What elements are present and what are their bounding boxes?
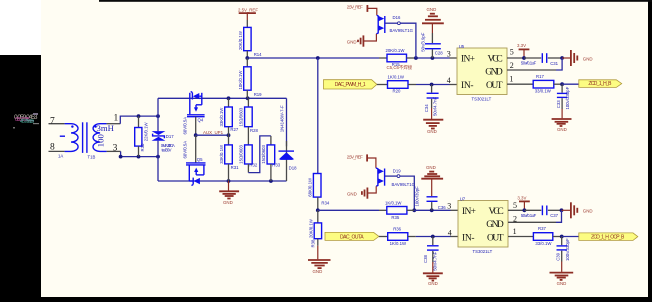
svg-text:33/0.1W: 33/0.1W xyxy=(535,88,552,93)
ground GND D16 xyxy=(347,34,377,47)
svg-text:R30: R30 xyxy=(140,143,145,151)
svg-text:3: 3 xyxy=(447,49,451,58)
resistor R37 xyxy=(533,226,561,246)
capacitor C33 xyxy=(556,84,570,109)
node bottom rail R33 xyxy=(269,179,273,183)
svg-text:U7: U7 xyxy=(460,196,466,201)
wire box top rail xyxy=(158,97,287,99)
svg-text:GND: GND xyxy=(427,129,437,134)
svg-text:3.3V: 3.3V xyxy=(517,195,526,200)
power port 2.5V_REF D16 xyxy=(347,4,377,15)
net label DAC_OUTA xyxy=(325,232,379,240)
ground GND below C38 xyxy=(423,262,443,286)
svg-text:R32: R32 xyxy=(249,162,257,167)
wire D18 drop xyxy=(286,98,288,146)
resistor R34 xyxy=(308,174,330,211)
node C34 tap xyxy=(430,83,434,87)
node divider top xyxy=(245,56,249,60)
svg-text:C31: C31 xyxy=(550,61,558,66)
resistor R28 xyxy=(239,98,259,145)
svg-text:1N4148W-7-F: 1N4148W-7-F xyxy=(279,105,284,132)
svg-text:C34: C34 xyxy=(424,104,429,112)
svg-text:1: 1 xyxy=(513,227,517,236)
node top rail R27 xyxy=(227,96,231,100)
resistor R36 xyxy=(379,227,416,247)
ground GND below C39 xyxy=(550,262,574,286)
svg-text:R37: R37 xyxy=(538,226,546,231)
svg-text:GND: GND xyxy=(583,56,593,61)
capacitor C34 xyxy=(424,85,439,117)
svg-text:R20: R20 xyxy=(393,89,401,94)
svg-text:R17: R17 xyxy=(536,74,544,79)
net label ZCD_1_H_OCP_B xyxy=(579,233,638,241)
net label ZCD_1_H_B xyxy=(579,80,622,88)
svg-text:ZCD_1_H_B: ZCD_1_H_B xyxy=(588,81,612,87)
resistor R38 xyxy=(308,210,321,247)
svg-text:C5,C6不焊接: C5,C6不焊接 xyxy=(387,64,413,71)
TVS diode D17 SMAJ30CA xyxy=(152,116,175,157)
svg-text:1A: 1A xyxy=(58,153,63,158)
svg-text:IN-: IN- xyxy=(462,233,475,243)
node C36 tap xyxy=(430,208,434,212)
transistor Q4 xyxy=(182,91,204,134)
glitch text artifact on black margin xyxy=(13,113,39,129)
resistor R31 xyxy=(219,135,239,181)
svg-text:C36: C36 xyxy=(438,205,446,210)
svg-text:D18: D18 xyxy=(289,165,297,170)
resistor R17 xyxy=(533,74,562,94)
svg-text:GND: GND xyxy=(557,281,567,286)
svg-text:50v/4.7nF: 50v/4.7nF xyxy=(433,97,438,116)
capacitor C36 xyxy=(415,186,447,210)
node top rail R19/R28 xyxy=(246,96,250,100)
svg-text:20K/0.1W: 20K/0.1W xyxy=(238,30,243,50)
svg-text:GND: GND xyxy=(427,7,437,12)
svg-text:2.5V_REF: 2.5V_REF xyxy=(238,7,258,12)
svg-text:3.3V: 3.3V xyxy=(517,43,526,48)
svg-text:100: 100 xyxy=(95,134,105,148)
svg-text:R19: R19 xyxy=(254,92,262,97)
svg-text:C38: C38 xyxy=(423,255,428,263)
svg-text:2.5V_REF: 2.5V_REF xyxy=(347,154,363,159)
svg-text:33/0.1W: 33/0.1W xyxy=(535,241,552,246)
wire Q4 gate to AUX node xyxy=(195,117,197,136)
svg-text:IN+: IN+ xyxy=(461,54,475,64)
wire ref rail top xyxy=(247,57,379,59)
capacitor C39 xyxy=(555,237,570,262)
svg-text:IN+: IN+ xyxy=(462,207,476,217)
svg-text:GND: GND xyxy=(347,192,357,197)
svg-text:1K/0.1W: 1K/0.1W xyxy=(388,75,405,80)
svg-text:33K/0.1W: 33K/0.1W xyxy=(219,144,224,164)
svg-text:68K/0.1W: 68K/0.1W xyxy=(308,177,313,197)
ground GND below C33 xyxy=(552,109,572,132)
svg-text:100v/39pF: 100v/39pF xyxy=(415,186,420,207)
capacitor C28 xyxy=(420,32,443,58)
svg-text:tvs/30V: tvs/30V xyxy=(162,147,172,152)
svg-text:3: 3 xyxy=(113,143,118,153)
svg-text:5: 5 xyxy=(510,48,514,57)
svg-text:7: 7 xyxy=(50,116,55,126)
svg-text:C28: C28 xyxy=(435,51,443,56)
svg-text:3: 3 xyxy=(447,201,451,210)
resistor R32 xyxy=(239,144,258,172)
net label DAC_PWM_H_1 xyxy=(324,80,377,89)
ground GND above C36 xyxy=(421,165,443,196)
svg-text:1K/0.1W: 1K/0.1W xyxy=(385,201,402,206)
svg-text:GND: GND xyxy=(486,220,504,230)
svg-text:ZCD_1_H_OCP_B: ZCD_1_H_OCP_B xyxy=(591,234,625,240)
capacitor C38 xyxy=(423,237,438,271)
svg-text:15Ω/0603: 15Ω/0603 xyxy=(261,144,266,163)
svg-text:Q4: Q4 xyxy=(198,118,204,123)
node C38 tap xyxy=(431,235,435,239)
wire R20 to U5 xyxy=(416,84,450,86)
svg-text:R35: R35 xyxy=(391,215,399,220)
node ref rail branch xyxy=(316,56,320,60)
svg-text:DAC_PWM_H_1: DAC_PWM_H_1 xyxy=(335,82,366,88)
diode D16 BAV99LT1G xyxy=(376,15,413,34)
svg-text:8: 8 xyxy=(50,143,55,153)
svg-text:3mH: 3mH xyxy=(97,123,115,133)
svg-text:2.5V_REF: 2.5V_REF xyxy=(347,4,363,9)
svg-text:10K/0.1W: 10K/0.1W xyxy=(238,70,243,90)
svg-text:33K/0.1W: 33K/0.1W xyxy=(219,107,224,127)
ground GND below R38 xyxy=(308,246,331,274)
node D17 bottom xyxy=(156,155,160,159)
svg-text:VCC: VCC xyxy=(488,54,503,64)
svg-text:22K/0.1W: 22K/0.1W xyxy=(144,121,149,141)
node C28 tap xyxy=(431,56,435,60)
wire to ZCD flag xyxy=(562,83,578,85)
svg-text:C39: C39 xyxy=(555,252,560,260)
capacitor C31 xyxy=(521,53,562,66)
svg-text:R28: R28 xyxy=(250,128,258,133)
wire pin3 to box xyxy=(121,151,158,156)
svg-text:60V/0.5A: 60V/0.5A xyxy=(182,117,187,135)
svg-text:OUT: OUT xyxy=(486,81,503,91)
svg-text:TS3021LT: TS3021LT xyxy=(472,97,492,102)
svg-text:AUX_UP1: AUX_UP1 xyxy=(203,130,224,135)
resistor R27 xyxy=(219,98,239,135)
diode D18 1N4148W-7-F xyxy=(279,105,298,181)
op-amp U5 TS3021LT xyxy=(457,44,507,102)
svg-text:4: 4 xyxy=(448,229,452,238)
svg-text:T1B: T1B xyxy=(88,154,96,159)
svg-text:100v/330pF: 100v/330pF xyxy=(565,86,570,109)
svg-text:100v/330pF: 100v/330pF xyxy=(565,238,570,261)
node 3.3V tap xyxy=(522,56,526,60)
wire R35 to U7 xyxy=(414,209,450,211)
svg-text:2: 2 xyxy=(510,61,514,70)
svg-text:BAV99LT1G: BAV99LT1G xyxy=(392,182,416,187)
svg-text:R14: R14 xyxy=(254,52,262,57)
node R30 bottom xyxy=(137,155,141,159)
ground GND D19 xyxy=(347,186,376,198)
svg-text:GND: GND xyxy=(557,127,567,132)
svg-text:IN-: IN- xyxy=(461,81,474,91)
wire U5 vcc pin xyxy=(507,57,524,59)
svg-text:50v/3.9pF: 50v/3.9pF xyxy=(420,32,425,51)
wire U7 vcc pin xyxy=(508,209,524,211)
svg-text:4: 4 xyxy=(447,76,451,85)
svg-text:VCC: VCC xyxy=(489,207,504,217)
svg-text:R31: R31 xyxy=(231,165,239,170)
node R30 top xyxy=(137,114,141,118)
node AUX R27 xyxy=(227,133,231,137)
resistor R33 xyxy=(261,136,281,181)
wire box bottom rail xyxy=(158,180,287,182)
svg-text:R27: R27 xyxy=(230,127,238,132)
node C37 right xyxy=(560,208,564,212)
svg-text:GND: GND xyxy=(313,269,323,274)
resistor R15 xyxy=(379,48,415,67)
resistor R20 xyxy=(377,75,416,94)
svg-text:OUT: OUT xyxy=(487,233,504,243)
node OUT junction bottom xyxy=(560,235,564,239)
wire D16 tap down xyxy=(400,23,416,58)
power port 2.5V_REF top xyxy=(238,7,258,20)
svg-text:GND: GND xyxy=(485,68,503,78)
wire U7 out pin xyxy=(508,236,533,238)
svg-text:15Ω/0603: 15Ω/0603 xyxy=(239,107,244,126)
ground GND right bottom xyxy=(562,202,593,218)
svg-text:5: 5 xyxy=(513,201,517,210)
svg-text:D16: D16 xyxy=(393,15,401,20)
svg-text:1: 1 xyxy=(114,114,119,124)
node AUX_UP1 xyxy=(194,133,198,137)
power port 3.3V top xyxy=(517,43,529,58)
svg-text:60V/0.5A: 60V/0.5A xyxy=(182,141,187,159)
svg-text:50v/0.1uF: 50v/0.1uF xyxy=(521,61,537,66)
power port 2.5V_REF D19 xyxy=(347,154,376,168)
svg-text:15Ω/0603: 15Ω/0603 xyxy=(239,144,244,163)
node D19 tap xyxy=(412,208,416,212)
node D16 tap xyxy=(414,56,418,60)
svg-text:4578.15: 4578.15 xyxy=(20,119,34,125)
transformer T1B xyxy=(49,122,121,153)
capacitor C37 xyxy=(521,206,562,219)
node bottom rail R31 xyxy=(227,179,231,183)
node pin3 corner xyxy=(119,155,123,159)
ground GND right top xyxy=(562,50,592,66)
svg-text:C37: C37 xyxy=(550,213,558,218)
svg-text:20K/0.1W: 20K/0.1W xyxy=(308,218,313,238)
svg-text:GND: GND xyxy=(428,281,438,286)
node D17 top xyxy=(156,114,160,118)
wire R36 to U7 xyxy=(416,236,451,238)
svg-text:R34: R34 xyxy=(321,201,329,206)
svg-text:D17: D17 xyxy=(166,134,174,139)
svg-text:C33: C33 xyxy=(556,100,561,108)
op-amp U7 TS3021LT xyxy=(458,196,508,254)
svg-text:D19: D19 xyxy=(393,168,401,173)
resistor R35 xyxy=(379,201,414,221)
wire bottom IN+ row xyxy=(318,209,379,211)
node 3.3V tap bottom xyxy=(523,208,527,212)
svg-text:U5: U5 xyxy=(459,44,465,49)
resistor R14 xyxy=(238,20,262,58)
wire to ZCD OCP flag xyxy=(562,236,579,238)
resistor R30 xyxy=(135,116,149,157)
wire pin1 to box xyxy=(120,116,158,124)
transistor Q5 xyxy=(182,135,205,185)
svg-text:20K/0.1W: 20K/0.1W xyxy=(386,48,406,53)
wire to U7 gnd pin xyxy=(556,210,562,222)
wire R32 to R33 jog xyxy=(248,136,271,173)
ground GND mid xyxy=(219,181,239,205)
svg-text:R36: R36 xyxy=(393,227,401,232)
wire box left vertical xyxy=(157,98,159,181)
wire R15 to U5 xyxy=(415,57,450,59)
svg-text:Q5: Q5 xyxy=(197,157,203,162)
node OUT junction top xyxy=(560,82,564,86)
wire to U5 gnd pin xyxy=(556,58,562,70)
resistor R19 xyxy=(238,58,262,98)
ground GND above C28 xyxy=(422,7,444,33)
wire AUX rail xyxy=(196,134,229,136)
svg-text:BAV99LT1G: BAV99LT1G xyxy=(390,28,414,33)
svg-text:GND: GND xyxy=(223,200,233,205)
svg-text:50v/0.1uF: 50v/0.1uF xyxy=(521,213,537,218)
svg-text:GND: GND xyxy=(583,209,593,214)
svg-text:R38: R38 xyxy=(311,239,316,247)
wire U5 out pin xyxy=(507,83,533,85)
svg-text:GND: GND xyxy=(426,165,436,170)
svg-text:DAC_OUTA: DAC_OUTA xyxy=(340,234,364,240)
svg-text:R33: R33 xyxy=(272,162,280,167)
transformer polarity minus xyxy=(60,135,65,137)
svg-text:1: 1 xyxy=(509,74,513,83)
ground GND below C34 xyxy=(423,108,443,134)
power port 3.3V bottom xyxy=(517,195,529,210)
svg-text:TS3021LT: TS3021LT xyxy=(473,249,493,254)
node C31 right xyxy=(560,56,564,60)
svg-text:1K/0.1W: 1K/0.1W xyxy=(390,241,407,246)
wire branch down to R34 xyxy=(317,58,319,174)
diode D19 BAV99LT1G xyxy=(376,168,416,187)
wire D19 tap down xyxy=(400,176,414,210)
svg-text:GND: GND xyxy=(347,39,357,44)
node R34 bottom xyxy=(316,208,320,212)
